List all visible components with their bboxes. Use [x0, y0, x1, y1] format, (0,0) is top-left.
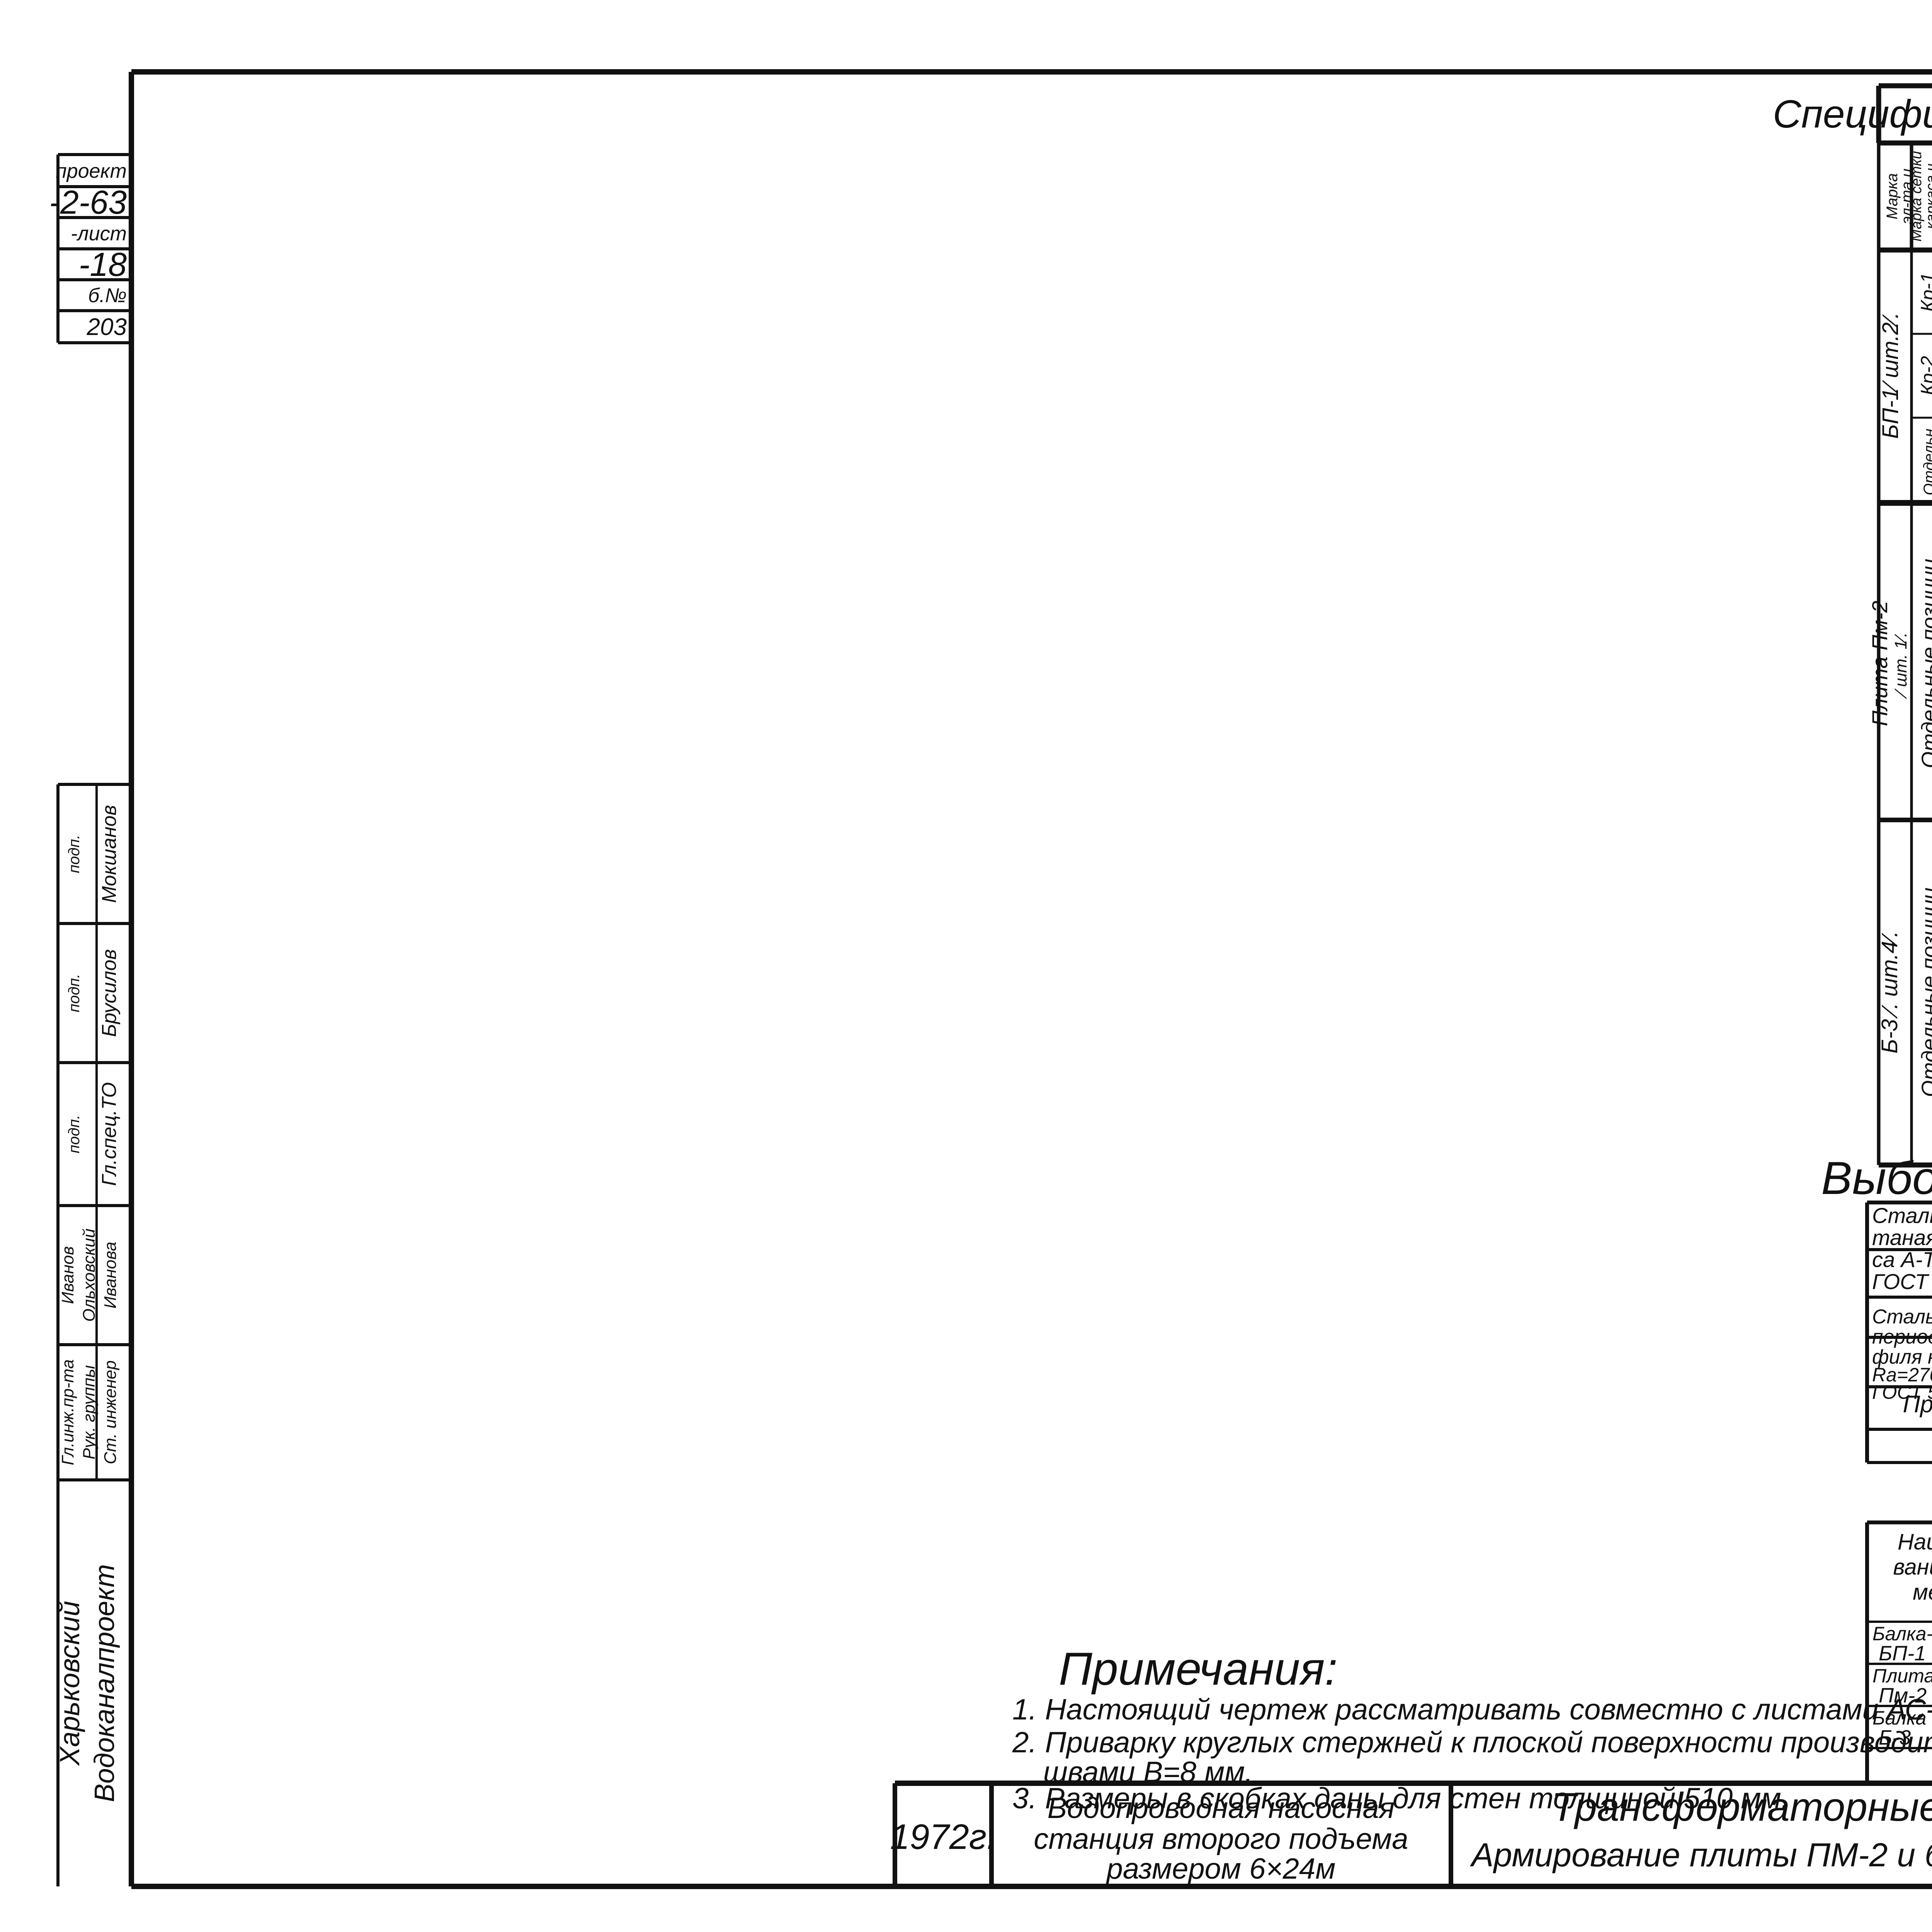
svg-text:Балка-перемычка: Балка-перемычка — [1872, 1623, 1932, 1645]
svg-text:Выборка арматуры на лист: Выборка арматуры на лист — [1821, 1152, 1932, 1204]
svg-text:БП-1: БП-1 — [1879, 1642, 1926, 1665]
svg-text:Армирование плиты ПМ-2 и балок: Армирование плиты ПМ-2 и балок Б-4 и БП-… — [1469, 1837, 1932, 1874]
svg-text:Плита: Плита — [1872, 1665, 1932, 1687]
svg-text:Ст. инженер: Ст. инженер — [101, 1361, 120, 1464]
svg-text:Кр-1: Кр-1 — [1917, 272, 1932, 312]
svg-text:размером 6×24м: размером 6×24м — [1106, 1852, 1336, 1885]
svg-text:1. Настоящий чертеж рассматрив: 1. Настоящий чертеж рассматривать совмес… — [1012, 1693, 1932, 1726]
svg-text:таная круглая клас-: таная круглая клас- — [1872, 1225, 1932, 1250]
svg-text:Отдельные позиции: Отдельные позиции — [1917, 888, 1932, 1097]
svg-text:Водоканалпроект: Водоканалпроект — [89, 1564, 120, 1802]
svg-text:Плита Пм-2: Плита Пм-2 — [1867, 601, 1892, 726]
svg-text:проект: проект — [56, 160, 127, 182]
svg-text:3. Размеры в скобках даны: 3. Размеры в скобках даны для стен толщи… — [1012, 1782, 1789, 1815]
svg-text:каркаса ч: каркаса ч — [1923, 163, 1932, 229]
svg-text:Кр-2: Кр-2 — [1917, 356, 1932, 395]
svg-text:203: 203 — [87, 314, 127, 340]
svg-text:Сталь горячека-: Сталь горячека- — [1872, 1203, 1932, 1228]
svg-text:подп.: подп. — [66, 1115, 83, 1153]
svg-text:Б-3 ∕. шт.4∕.: Б-3 ∕. шт.4∕. — [1877, 931, 1902, 1053]
svg-text:Мокшанов: Мокшанов — [98, 805, 121, 903]
svg-text:Гл.инж.пр-та: Гл.инж.пр-та — [58, 1359, 77, 1465]
svg-text:ГОСТ 5781-61*: ГОСТ 5781-61* — [1872, 1269, 1932, 1294]
svg-text:станция второго подъема: станция второго подъема — [1034, 1823, 1408, 1855]
svg-text:-2-63: -2-63 — [49, 184, 127, 221]
svg-text:б.№: б.№ — [88, 284, 127, 307]
svg-text:2. Приварку круглых стержней: 2. Приварку круглых стержней к плоской п… — [1012, 1726, 1932, 1759]
svg-text:Рук. группы: Рук. группы — [80, 1365, 99, 1459]
svg-text:Брусилов: Брусилов — [98, 949, 121, 1037]
svg-text:Отдельные позиции: Отдельные позиции — [1917, 559, 1932, 768]
svg-text:Наимено-: Наимено- — [1898, 1529, 1932, 1554]
svg-text:-лист: -лист — [71, 223, 127, 245]
svg-text:подп.: подп. — [66, 835, 83, 873]
svg-text:БП-1∕ шт.2∕.: БП-1∕ шт.2∕. — [1878, 312, 1903, 439]
svg-text:Иванов: Иванов — [58, 1246, 77, 1304]
svg-text:са А-Т Ra=2100кг/см: са А-Т Ra=2100кг/см — [1872, 1247, 1932, 1272]
svg-text:∕ шт. 1∕.: ∕ шт. 1∕. — [1891, 633, 1910, 699]
svg-text:Примечания:: Примечания: — [1059, 1643, 1338, 1695]
svg-text:Сталь горячекатаная: Сталь горячекатаная — [1872, 1306, 1932, 1328]
svg-text:Марка сетки: Марка сетки — [1908, 151, 1925, 241]
svg-text:Спецификация арматуры на 1 эле: Спецификация арматуры на 1 элемент — [1773, 92, 1932, 136]
svg-text:периодического про-: периодического про- — [1872, 1326, 1932, 1348]
svg-text:Харьковский: Харьковский — [54, 1601, 85, 1766]
svg-text:мента: мента — [1913, 1580, 1932, 1605]
svg-text:-18: -18 — [79, 246, 127, 283]
svg-text:Гл.спец.ТО: Гл.спец.ТО — [98, 1082, 121, 1186]
svg-text:Ольховский: Ольховский — [80, 1228, 99, 1321]
svg-text:подп.: подп. — [66, 974, 83, 1012]
svg-text:1972г.: 1972г. — [890, 1817, 997, 1857]
svg-text:Иванова: Иванова — [101, 1242, 120, 1308]
svg-text:вание эле-: вание эле- — [1893, 1554, 1932, 1580]
svg-text:Прокатная: Прокатная — [1903, 1391, 1932, 1418]
svg-text:Отдельн.: Отдельн. — [1921, 424, 1932, 495]
